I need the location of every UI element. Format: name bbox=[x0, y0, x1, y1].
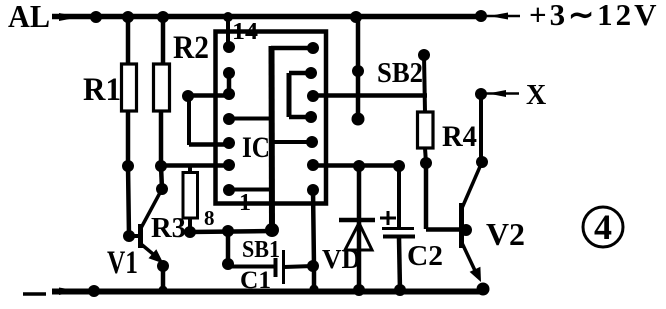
pin dot right y190 bbox=[307, 184, 319, 196]
wire X down to V2 collector bbox=[479, 94, 483, 163]
node dot SB1 top bbox=[222, 225, 234, 237]
wire V1 base stub bbox=[129, 234, 139, 238]
svg-text:8: 8 bbox=[204, 206, 215, 230]
X arrowhead bbox=[488, 90, 506, 97]
capacitor C2 top plate bbox=[382, 227, 414, 230]
node dot V1 collector junction bbox=[156, 183, 168, 195]
supply arrowhead bbox=[489, 13, 508, 20]
node dot C2 top bbox=[393, 160, 405, 172]
resistor R1 bbox=[122, 64, 137, 111]
wire V1 emitter to rail bbox=[161, 264, 166, 291]
pin dot right y165 bbox=[307, 159, 319, 171]
AL arrowhead bbox=[59, 13, 80, 21]
wire SB2 vertical bbox=[356, 17, 361, 119]
wire R1 top lead bbox=[126, 17, 131, 64]
node dot V1 base bbox=[123, 230, 135, 242]
pin dot right y142 bbox=[306, 136, 318, 148]
wire R1 bottom lead to V1 base bbox=[128, 111, 129, 236]
node X output dot bbox=[475, 88, 487, 100]
svg-text:+3∼12V: +3∼12V bbox=[529, 0, 660, 32]
capacitor C1 right plate bbox=[282, 250, 285, 284]
C2 plus sign bbox=[380, 211, 396, 225]
wire C1 right lead bbox=[284, 266, 313, 267]
pin dot left y190 bbox=[223, 184, 235, 196]
svg-text:IC: IC bbox=[242, 131, 270, 164]
node dot on R1 lead bbox=[122, 160, 134, 172]
wire bracket stub top bbox=[289, 71, 311, 76]
wire IC internal y142 bbox=[271, 140, 312, 144]
pin dot left y143 bbox=[223, 137, 235, 149]
wire C2 bottom lead bbox=[399, 238, 400, 291]
node dot VD top bbox=[353, 160, 365, 172]
wire pin pair stub bbox=[227, 73, 232, 94]
wire R4 bottom lead bbox=[425, 148, 426, 163]
wire SB1 vertical bbox=[226, 231, 231, 264]
wire bottom rail bbox=[52, 289, 483, 295]
transistor V2 base bar bbox=[459, 203, 464, 248]
node dot bottom rail VD bbox=[353, 284, 365, 296]
wire pin119 to center bbox=[229, 117, 271, 121]
wire R3 top lead bbox=[188, 166, 192, 173]
node dot V2 base bbox=[460, 224, 472, 236]
wire pin 14 lead bbox=[226, 17, 230, 47]
svg-text:14: 14 bbox=[232, 19, 258, 45]
wire bracket stub bottom bbox=[289, 115, 311, 120]
wire SB1 to C1 bbox=[228, 265, 274, 269]
wire R3 bottom lead bbox=[188, 218, 192, 233]
wire pin96 exit right bbox=[313, 93, 427, 98]
pin dot right y48 bbox=[307, 42, 319, 54]
node dot bottom rail left bbox=[88, 285, 100, 297]
pin dot left y165 bbox=[223, 159, 235, 171]
V1 emitter arrowhead bbox=[149, 249, 164, 263]
wire AL lead bbox=[52, 16, 96, 19]
transistor V1 emitter bbox=[141, 244, 159, 259]
node dot bottom rail V1 bbox=[159, 286, 168, 295]
wire pin8 net horizontal bbox=[190, 231, 272, 232]
wire R2 top lead bbox=[161, 17, 166, 64]
wire R4 to V2 base bbox=[426, 163, 464, 230]
pin dot right y117 bbox=[305, 111, 317, 123]
svg-text:V2: V2 bbox=[486, 216, 525, 252]
wire net y166 to IC pin bbox=[159, 163, 231, 168]
node dot R3 bottom bbox=[184, 226, 196, 238]
resistor R2 bbox=[154, 64, 170, 111]
node dot SB2 bottom contact bbox=[352, 113, 365, 126]
wire loop vertical bbox=[187, 96, 191, 145]
svg-text:SB2: SB2 bbox=[377, 58, 423, 89]
wire IC central vertical bbox=[269, 46, 276, 230]
node junction dot top rail pin14 bbox=[223, 12, 233, 22]
wire X terminal lead bbox=[481, 92, 519, 95]
diode VD triangle bbox=[345, 223, 372, 250]
svg-text:AL: AL bbox=[8, 0, 50, 34]
transistor V2 emitter bbox=[462, 243, 478, 277]
node junction dot top rail SB2 bbox=[350, 11, 362, 23]
pin dot left y73 bbox=[223, 67, 235, 79]
pin dot left y119 bbox=[223, 113, 235, 125]
svg-text:C2: C2 bbox=[407, 241, 443, 272]
node dot bottom rail C2 bbox=[394, 284, 406, 296]
minus terminal dash bbox=[23, 292, 46, 296]
node dot bottom rail V2 emitter bbox=[477, 283, 490, 296]
node junction dot top rail R1 bbox=[122, 11, 134, 23]
wire supply terminal lead bbox=[481, 15, 520, 18]
svg-text:R3: R3 bbox=[151, 212, 186, 244]
svg-text:R1: R1 bbox=[83, 72, 121, 108]
wire pin165 exit right bbox=[313, 163, 404, 168]
wire node to V1 collector bbox=[161, 166, 162, 189]
node dot V1 emitter bbox=[157, 260, 169, 272]
node dot R4 bottom bbox=[420, 157, 432, 169]
node dot R4 top bbox=[418, 49, 430, 61]
node dot bottom rail C1 bbox=[310, 285, 319, 294]
wire IC bracket vertical bbox=[287, 73, 292, 117]
transistor V2 collector bbox=[462, 162, 482, 208]
node dot R2 bottom bbox=[155, 160, 167, 172]
capacitor C1 left plate bbox=[274, 258, 278, 277]
pin dot left 14 bbox=[223, 41, 235, 53]
bottom rail arrowhead bbox=[59, 288, 80, 296]
transistor V1 base bar bbox=[138, 224, 143, 248]
wire loop bottom to IC pin bbox=[189, 142, 230, 147]
pin dot right y73 bbox=[305, 67, 317, 79]
node junction dot top rail right end bbox=[475, 10, 487, 22]
wire pin190 down to C1 right bbox=[313, 190, 314, 291]
capacitor C2 bottom plate bbox=[383, 235, 415, 239]
wire top supply rail bbox=[52, 14, 483, 20]
op-amp IC box U1 bbox=[216, 32, 327, 204]
svg-text:V1: V1 bbox=[107, 245, 138, 281]
wire VD vertical bbox=[357, 166, 362, 291]
wire loop top to IC pin bbox=[188, 93, 229, 98]
pin dot left y94 bbox=[223, 88, 235, 100]
node dot SB2 top contact bbox=[352, 65, 364, 77]
resistor R3 bbox=[183, 173, 198, 219]
node dot pin8 net right bbox=[265, 223, 279, 237]
node dot C1 right bbox=[307, 260, 319, 272]
V2 emitter arrowhead bbox=[470, 267, 481, 282]
wire IC top internal horizontal bbox=[271, 46, 313, 51]
node junction dot top rail R2 bbox=[157, 11, 169, 23]
pin dot right y96 bbox=[307, 90, 319, 102]
svg-text:1: 1 bbox=[239, 190, 251, 216]
node corner dot left loop bbox=[182, 90, 194, 102]
wire R2 bottom lead bbox=[159, 111, 164, 166]
figure number circle 4 bbox=[583, 207, 623, 247]
wire pin190 to center bbox=[229, 188, 271, 192]
wire C2 top lead bbox=[397, 166, 401, 227]
resistor R4 bbox=[418, 112, 434, 148]
transistor V1 collector bbox=[141, 189, 162, 228]
node dot V2 collector junction bbox=[476, 156, 488, 168]
wire R4 top lead bbox=[424, 55, 425, 112]
diode VD cathode bar bbox=[339, 218, 375, 223]
node dot SB1 bottom bbox=[222, 258, 234, 270]
svg-text:4: 4 bbox=[594, 207, 612, 247]
svg-text:R2: R2 bbox=[173, 30, 209, 66]
node junction dot top rail AL bbox=[90, 11, 102, 23]
svg-text:X: X bbox=[526, 80, 546, 111]
svg-text:R4: R4 bbox=[442, 120, 477, 153]
